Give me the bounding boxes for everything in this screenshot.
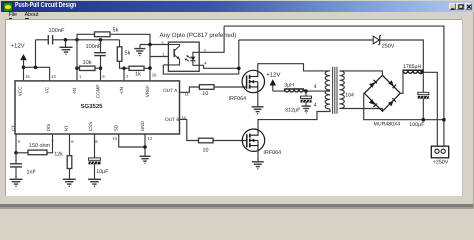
svg-text:COMP: COMP [96,84,101,98]
wire +IN pin drop [123,68,125,80]
svg-text:312µF: 312µF [285,107,301,113]
sense rail right part [380,40,424,72]
svg-text:RT: RT [64,125,69,131]
right outer edge [473,12,474,209]
wire 100uF to minus rail [422,98,424,119]
wire COMP riser lower [100,55,102,80]
feedback rail (top, to output terminal) [224,26,444,146]
wire M2 source to ground [257,151,259,161]
svg-text:10: 10 [113,135,118,140]
svg-text:OUT A: OUT A [163,88,178,94]
wire 5k rail elbow [77,34,95,40]
wire RT pin drop [69,134,71,156]
svg-text:8: 8 [95,138,98,143]
wire rail B riser [238,40,240,74]
wire 100uF drop [422,72,424,92]
wire 312uF drop [305,91,307,96]
junction 312uF tap [304,89,308,93]
wire 1k right lead [144,67,150,69]
svg-text:3µH: 3µH [284,82,294,88]
svg-text:IRF064: IRF064 [229,96,247,102]
wire CT pin drop [15,134,17,153]
right window frame [462,20,474,209]
ground G3 [10,179,23,186]
wire +12V power arrow stem [23,60,25,80]
wire R8 to M2 gate [213,139,247,141]
wire R7 to M1 gate [214,86,247,88]
wire 1nF to ground [15,167,17,179]
capacitor C1 100nF (vertical plates) [48,35,52,44]
ground G2 stem [139,44,141,48]
resistor R3 5k (vertical) [117,46,122,61]
wire bridge plus to inductor [400,70,403,93]
transistor M2 IRF064 [242,129,264,151]
svg-text:2: 2 [126,73,129,78]
resistor R1 5k (horizontal) [95,32,111,37]
svg-text:5k: 5k [113,26,119,33]
svg-text:13: 13 [51,73,56,78]
svg-text:150 ohm: 150 ohm [29,143,50,149]
resistor R5 150 ohm [28,150,47,155]
wire gnd2 tee to opto pin3 [140,43,168,45]
resistor R7 10 (gate A) [199,84,214,89]
capacitor C4 10uF electrolytic [89,158,101,164]
svg-text:10: 10 [202,91,208,97]
wire bridge minus to output rail [364,93,444,119]
menu File [9,12,17,18]
junction on +12V net [22,65,26,69]
window title bar [1,1,473,13]
wire opto pin2 to feedback rail [199,26,224,52]
svg-text:16: 16 [152,72,157,77]
wire -IN riser to pin 1 [76,39,78,80]
wire R3 bottom to +IN node [120,61,130,68]
close button [465,3,472,10]
wire M1 drain to transformer [258,63,330,70]
wire choke to center tap [304,89,330,91]
junction +IN node [122,66,126,70]
svg-text:10k: 10k [83,59,92,66]
junction 10k right [99,66,103,70]
junction VREF-tee [148,42,152,46]
svg-text:VCC: VCC [18,86,23,96]
svg-text:+12V: +12V [266,71,280,78]
junction feedback-minus [442,118,446,122]
ground G8 [252,161,264,168]
bottom outer edge [0,207,474,209]
power +12V (mid) [270,79,277,85]
ground G2 [134,48,145,55]
window title text [15,2,76,9]
svg-text:9: 9 [102,73,105,78]
wire CSS pin drop [94,134,96,158]
svg-text:6: 6 [71,138,74,143]
svg-text:15: 15 [25,73,30,78]
wire GND pin drop [144,134,146,156]
junction C1-gnd [64,38,68,42]
wire opto pin4 jog [199,65,239,68]
wire +12V mid stem [272,85,274,91]
opto phototransistor [168,44,179,64]
wire COMP riser upper [100,39,102,52]
wire decouple riser [35,39,37,67]
minimize button [449,3,456,10]
bottom window frame [0,196,474,209]
transistor M1 IRF064 [242,70,264,92]
svg-text:5: 5 [18,138,21,143]
svg-text:4: 4 [314,84,317,90]
power +12V (left) [20,54,27,60]
inductor L2 1785uH [403,70,424,73]
svg-text:SD: SD [114,124,119,131]
wire choke line left [273,89,285,91]
svg-text:100nF: 100nF [49,28,65,34]
opto LED [190,52,199,65]
resistor R4 1k [129,66,144,70]
ground G5 [88,179,101,186]
junction 100uF-minus [422,118,426,122]
svg-text:+250V: +250V [433,159,449,165]
wire M1 source to ground [257,92,259,106]
svg-text:12k: 12k [54,151,63,157]
capacitor C6 100uF electrolytic [418,92,429,98]
wire secondary bottom lead [340,108,383,111]
svg-text:+IN: +IN [119,87,124,94]
wire top rail y39.5 right part [53,38,120,40]
junction L2 out arrow [420,70,425,75]
sense rail (with 250V zener) [239,39,373,41]
junction COMP riser [99,38,103,42]
capacitor C3 1nF plates [10,163,22,166]
schematic canvas [5,19,462,196]
junction pin4-emitter [237,66,241,70]
svg-text:-IN: -IN [72,88,77,94]
wire OUT B [180,119,199,140]
wire opto base line [150,55,168,57]
svg-text:IRF064: IRF064 [263,150,281,156]
svg-text:GND: GND [140,120,145,131]
zener D1 250V [373,35,381,45]
wire 10uF to ground [94,164,96,179]
wire 5k rail to VREF column [110,34,150,80]
svg-text:5k: 5k [125,49,131,56]
wire output plus run [423,72,437,146]
wire emitter drop and run [163,65,239,74]
bottom dark edge [0,204,474,206]
ground G7 [252,106,264,113]
svg-text:100nF: 100nF [86,44,102,50]
svg-text:12: 12 [148,135,153,140]
wire CT to 150ohm [16,151,28,153]
menu bar [1,12,473,19]
capacitor C2 100nF (horizontal plates) [94,52,106,55]
junction 1k-VREF [148,66,152,70]
menu About [25,12,39,18]
svg-text:10: 10 [203,147,209,153]
wire SD pin jog to GND pin [119,134,145,147]
svg-text:1: 1 [79,73,82,78]
svg-text:4: 4 [204,60,207,65]
svg-text:4: 4 [314,102,317,108]
svg-text:CT: CT [11,125,16,131]
wire CT to 1nF [15,152,17,163]
svg-text:SG3525: SG3525 [81,103,104,110]
wire secondary top lead [340,71,383,75]
junction CT node [14,151,18,155]
svg-text:VC: VC [45,86,50,93]
capacitor C5 312uF electrolytic [301,96,312,102]
svg-text:1785µH: 1785µH [403,64,422,70]
wire 12k to ground [69,168,71,179]
transformer T1 core [333,66,337,113]
IC U1 SG3525 body [15,81,180,134]
terminal block +250V [431,146,448,158]
junction VCC decouple [34,65,38,69]
svg-text:DIS: DIS [46,123,51,131]
svg-text:1: 1 [162,51,165,56]
ground G1 stem [65,39,67,47]
app icon [3,2,13,12]
svg-text:Any Opto (PC817 preferred): Any Opto (PC817 preferred) [160,32,237,39]
svg-text:1k: 1k [135,70,141,77]
junction -IN riser [75,38,79,42]
resistor R6 12k (vertical) [67,155,72,168]
inductor L1 3uH [284,89,304,92]
ground G9 [302,106,311,113]
opto light arrows [185,55,191,61]
junction SD-GND [143,145,147,149]
svg-text:104: 104 [345,92,354,98]
bridge rectifier BR1 MUR480X4 [364,75,400,111]
svg-text:+12V: +12V [11,42,25,49]
ground G6 [140,156,151,163]
svg-text:CSS: CSS [88,122,93,131]
optocoupler U2 body [168,42,199,71]
wire top rail y39.5 left part [36,38,49,40]
wire OUT A [180,87,200,92]
svg-text:1nF: 1nF [27,169,37,175]
svg-text:250V: 250V [382,43,395,49]
svg-text:MUR480X4: MUR480X4 [374,121,401,127]
ground G1 [60,47,73,54]
wire R3 top lead [119,39,121,46]
wire +12V to VC pin [24,67,50,80]
svg-text:10µF: 10µF [96,169,109,175]
wire 312uF to ground [305,102,307,106]
wire 150ohm to DIS pin [47,134,53,153]
wire M2 drain to transformer [258,109,330,129]
ground G4 [63,179,76,186]
svg-text:VREF: VREF [145,85,150,97]
svg-text:100µF: 100µF [409,122,425,128]
wire 10k leads [77,67,101,69]
resistor R8 10 (gate B) [199,138,214,143]
transformer T1 primary winding [325,71,330,109]
resistor R2 10k [80,66,96,70]
transformer T1 secondary winding [340,71,345,109]
svg-text:OUT B: OUT B [165,117,180,123]
maximize button [456,3,463,10]
wire opto emitter to rail B [163,64,168,66]
junction 10k left [75,66,79,70]
